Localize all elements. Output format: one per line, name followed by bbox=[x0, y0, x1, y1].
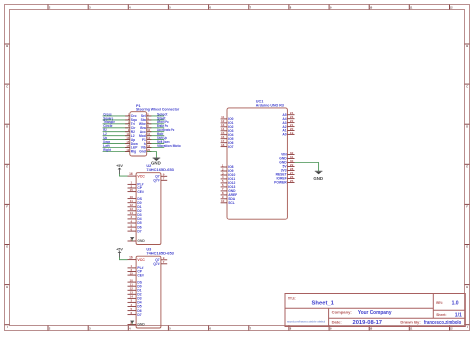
svg-text:E: E bbox=[466, 165, 468, 169]
connector P1 Steering Wheel Connector bbox=[126, 104, 179, 156]
svg-text:GND: GND bbox=[151, 160, 161, 165]
svg-text:POWER: POWER bbox=[274, 181, 287, 185]
svg-text:H: H bbox=[6, 285, 8, 289]
wire Up to P1 bbox=[103, 136, 130, 140]
svg-text:19: 19 bbox=[290, 131, 294, 135]
svg-text:B: B bbox=[6, 44, 8, 48]
wire Select from P1 bbox=[147, 112, 169, 116]
svg-text:Vibration Moto: Vibration Moto bbox=[157, 143, 181, 148]
+5V flag for U3 bbox=[116, 248, 123, 258]
svg-text:25: 25 bbox=[290, 179, 294, 183]
svg-text:Steering Wheel Connector: Steering Wheel Connector bbox=[136, 108, 180, 112]
wire +5V to U2 VCC bbox=[120, 174, 128, 176]
wire Cross to P1 bbox=[103, 112, 130, 116]
svg-text:15: 15 bbox=[130, 271, 134, 275]
wire Square to P1 bbox=[103, 116, 130, 120]
svg-text:Company:: Company: bbox=[332, 310, 352, 315]
svg-text:16: 16 bbox=[129, 256, 133, 260]
title block bbox=[285, 294, 465, 327]
svg-text:VCC: VCC bbox=[137, 174, 145, 178]
svg-text:Q7#: Q7# bbox=[153, 262, 159, 266]
svg-text:D7: D7 bbox=[137, 313, 141, 317]
svg-text:C: C bbox=[6, 84, 8, 88]
svg-text:GND: GND bbox=[137, 323, 145, 327]
wire UC1 GND to ground bbox=[295, 163, 319, 172]
wire Start from P1 bbox=[147, 116, 167, 120]
svg-text:10: 10 bbox=[221, 199, 225, 203]
wire Brake Po from P1 bbox=[147, 124, 168, 128]
wire Left to P1 bbox=[103, 144, 130, 148]
wire +5V to U3 VCC bbox=[120, 257, 128, 259]
wire Vibration Moto from P1 bbox=[147, 143, 181, 148]
shift register U2 74HC165D-653 bbox=[128, 164, 174, 244]
svg-text:2019-08-17: 2019-08-17 bbox=[353, 320, 383, 326]
svg-text:B: B bbox=[466, 44, 468, 48]
svg-text:easyeda.com/francesco.zimbolo: easyeda.com/francesco.zimbolo oshwhub bbox=[287, 320, 325, 323]
svg-text:Gnd: Gnd bbox=[139, 150, 146, 154]
svg-text:E: E bbox=[6, 165, 8, 169]
wire Mode from P1 bbox=[147, 132, 165, 136]
ground below P1 bbox=[151, 158, 161, 165]
wire Accellerato Po from P1 bbox=[147, 128, 175, 132]
svg-text:GND: GND bbox=[137, 239, 145, 243]
svg-text:H: H bbox=[466, 285, 468, 289]
shift register U3 74HC165D-653 bbox=[128, 248, 174, 328]
svg-text:74HC165D-653: 74HC165D-653 bbox=[146, 252, 174, 256]
svg-text:Right: Right bbox=[103, 148, 111, 152]
svg-text:D: D bbox=[6, 124, 8, 128]
svg-text:CE#: CE# bbox=[137, 190, 144, 194]
svg-text:VCC: VCC bbox=[137, 258, 145, 262]
mcu UC1 Arduino UNO R3 bbox=[221, 100, 295, 220]
svg-text:SCL: SCL bbox=[228, 201, 235, 205]
svg-text:Drawn By:: Drawn By: bbox=[400, 320, 420, 325]
svg-text:TITLE:: TITLE: bbox=[288, 295, 296, 300]
pin stub P1 Gnd bbox=[147, 151, 152, 153]
svg-text:francesco.zimbolo: francesco.zimbolo bbox=[424, 320, 461, 326]
wire P1 Gnd to ground bbox=[147, 152, 157, 158]
svg-text:REV:: REV: bbox=[436, 300, 443, 305]
svg-text:Rig: Rig bbox=[131, 150, 136, 154]
svg-text:Sheet_1: Sheet_1 bbox=[312, 300, 335, 306]
svg-text:C: C bbox=[466, 84, 468, 88]
wire L2 to P1 bbox=[103, 132, 130, 136]
svg-text:Your Company: Your Company bbox=[358, 310, 392, 316]
svg-text:15: 15 bbox=[130, 188, 134, 192]
svg-text:74HC165D-653: 74HC165D-653 bbox=[146, 168, 174, 172]
wire Wheel Po from P1 bbox=[147, 120, 169, 124]
svg-text:D: D bbox=[466, 124, 468, 128]
wire Shift Down from P1 bbox=[147, 140, 170, 144]
wire R2 to P1 bbox=[103, 128, 130, 132]
wire Triangle to P1 bbox=[103, 120, 130, 124]
wire Circle to P1 bbox=[103, 124, 130, 128]
svg-text:Sheet:: Sheet: bbox=[436, 312, 446, 317]
svg-text:+5V: +5V bbox=[116, 164, 123, 168]
wire Down to P1 bbox=[103, 140, 130, 144]
svg-text:18: 18 bbox=[221, 143, 225, 147]
wire Right to P1 bbox=[103, 148, 130, 152]
svg-text:Arduino UNO R3: Arduino UNO R3 bbox=[256, 103, 284, 107]
svg-text:Q7#: Q7# bbox=[153, 179, 159, 183]
ground right of UC1 bbox=[313, 171, 323, 181]
svg-text:IO7: IO7 bbox=[228, 145, 233, 149]
svg-text:1.0: 1.0 bbox=[452, 300, 459, 306]
svg-text:GND: GND bbox=[313, 176, 323, 181]
svg-text:A0: A0 bbox=[282, 133, 286, 137]
ground flag at U3 GND pin bbox=[130, 321, 134, 325]
svg-text:1/1: 1/1 bbox=[455, 312, 462, 318]
svg-text:G: G bbox=[466, 245, 468, 249]
svg-text:G: G bbox=[6, 245, 8, 249]
ground flag at U2 GND pin bbox=[130, 238, 134, 242]
svg-text:+5V: +5V bbox=[116, 248, 123, 252]
svg-text:CE#: CE# bbox=[137, 273, 144, 277]
+5V flag for U2 bbox=[116, 164, 123, 174]
svg-text:16: 16 bbox=[129, 172, 133, 176]
wire Shift Up from P1 bbox=[147, 136, 167, 140]
svg-text:Date:: Date: bbox=[332, 320, 342, 325]
svg-text:D7: D7 bbox=[137, 229, 141, 233]
